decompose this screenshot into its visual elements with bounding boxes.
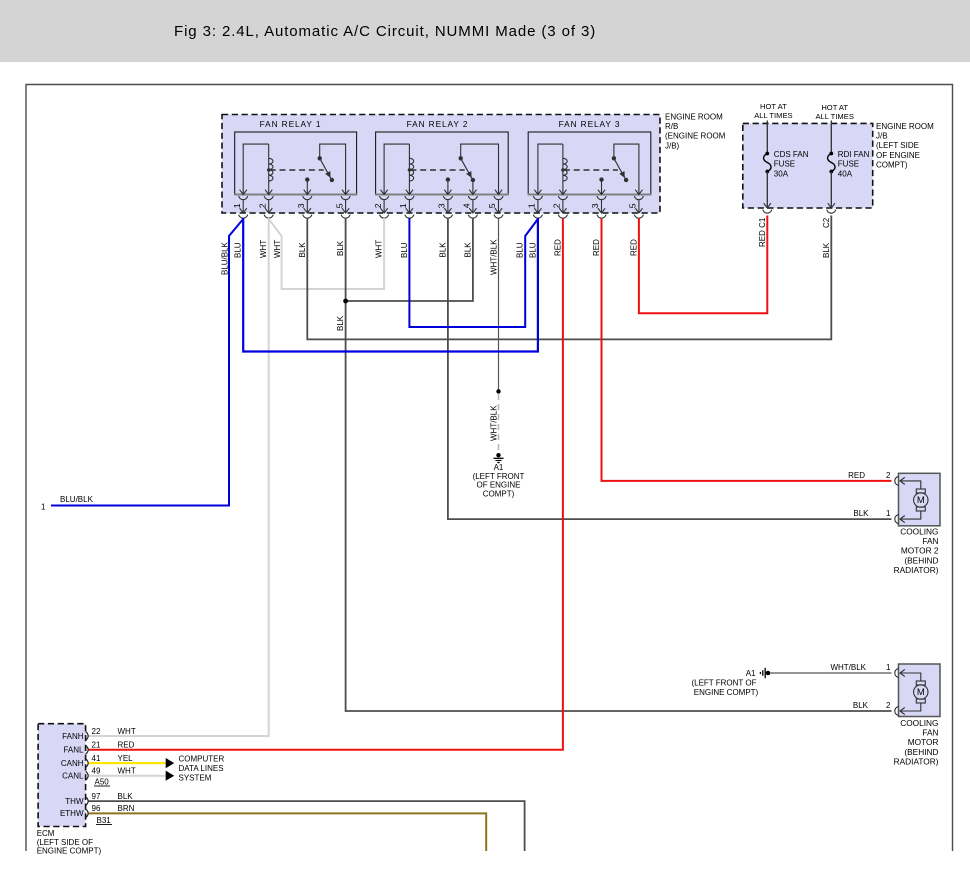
svg-text:BLK: BLK — [463, 242, 472, 258]
CDS FAN FUSE 30A — [763, 121, 809, 214]
FAN RELAY 2 body — [375, 119, 509, 195]
FAN RELAY 2 coil — [384, 144, 414, 194]
svg-text:OF ENGINE: OF ENGINE — [476, 481, 520, 490]
wire BLK relay1 pin5 to cooling fan motor pin2 — [346, 218, 892, 711]
svg-text:FAN: FAN — [922, 728, 938, 738]
svg-text:WHT: WHT — [375, 240, 384, 258]
FAN RELAY 2 arm contact pin 4 lead — [472, 180, 474, 195]
splice dot — [496, 389, 500, 393]
FAN RELAY 1 body — [234, 119, 357, 195]
svg-text:COMPT): COMPT) — [483, 490, 515, 499]
svg-text:WHT: WHT — [118, 767, 136, 776]
ground point A1 (left front of engine compt) for motor — [760, 668, 770, 678]
svg-text:MOTOR 2: MOTOR 2 — [901, 546, 939, 556]
svg-text:RED C1: RED C1 — [758, 217, 767, 247]
svg-text:WHT/BLK: WHT/BLK — [490, 405, 499, 441]
svg-text:CANH: CANH — [61, 759, 84, 768]
svg-text:FAN: FAN — [922, 536, 938, 546]
svg-text:A50: A50 — [95, 778, 110, 787]
ground lead (dashed) WHT/BLK — [498, 394, 500, 451]
svg-text:ENGINE COMPT): ENGINE COMPT) — [37, 847, 102, 856]
svg-text:(LEFT SIDE: (LEFT SIDE — [876, 141, 919, 150]
svg-text:COMPT): COMPT) — [876, 160, 908, 169]
FAN RELAY 3 body — [528, 119, 652, 195]
svg-text:HOT AT: HOT AT — [760, 102, 787, 111]
svg-text:96: 96 — [92, 804, 101, 813]
FAN RELAY 1 fixed contact pin — [305, 177, 309, 194]
FAN RELAY 2 pin terminals — [373, 190, 503, 219]
svg-text:49: 49 — [92, 767, 101, 776]
junction dot relay1-pin5/relay2-pin4 — [343, 299, 348, 304]
svg-text:40A: 40A — [838, 169, 853, 178]
svg-text:BLK: BLK — [336, 240, 345, 256]
svg-text:1: 1 — [527, 203, 537, 208]
svg-text:FAN RELAY 2: FAN RELAY 2 — [407, 119, 469, 129]
svg-text:J/B: J/B — [876, 132, 888, 141]
svg-text:R/B: R/B — [665, 122, 678, 131]
FAN RELAY 3 coil — [538, 144, 567, 194]
FAN RELAY 2 coil-to-switch dashed link — [410, 169, 464, 171]
svg-text:B31: B31 — [97, 816, 112, 825]
svg-text:ENGINE ROOM: ENGINE ROOM — [665, 113, 723, 122]
svg-text:1: 1 — [886, 509, 891, 518]
ENGINE ROOM R/B label — [665, 113, 726, 151]
ECM connector B31 — [96, 816, 112, 825]
FAN RELAY 3 coil-to-switch dashed link — [564, 169, 618, 171]
svg-text:1: 1 — [41, 503, 46, 512]
svg-text:5: 5 — [487, 203, 497, 208]
ECM caption — [37, 829, 102, 856]
svg-text:(BEHIND: (BEHIND — [904, 555, 938, 565]
wire BLU/BLK relay1 pin1 to connector 1 — [51, 219, 243, 506]
cooling fan motor — [894, 664, 940, 766]
svg-text:ENGINE ROOM: ENGINE ROOM — [876, 122, 934, 131]
svg-text:2: 2 — [886, 471, 891, 480]
wire BLK relay2 pin4 to junction — [346, 218, 473, 301]
svg-text:A1: A1 — [746, 669, 756, 678]
svg-text:CDS FAN: CDS FAN — [774, 150, 809, 159]
svg-text:BLK: BLK — [438, 242, 447, 258]
svg-text:3: 3 — [590, 203, 600, 208]
svg-text:YEL: YEL — [118, 754, 134, 763]
svg-text:(LEFT FRONT OF: (LEFT FRONT OF — [691, 678, 756, 687]
svg-text:BLK: BLK — [853, 509, 869, 518]
svg-text:BRN: BRN — [118, 804, 135, 813]
svg-text:J/B): J/B) — [665, 141, 680, 150]
svg-text:ENGINE COMPT): ENGINE COMPT) — [694, 688, 759, 697]
svg-text:1: 1 — [232, 203, 242, 208]
svg-text:COMPUTER: COMPUTER — [179, 755, 225, 764]
wire BLK ECM pin97 (THW) — [88, 801, 525, 851]
svg-text:WHT: WHT — [273, 240, 282, 258]
wire WHT ECM pin49 (CANL) to data-link arrow — [88, 775, 168, 777]
ECM pin 49 CANL — [62, 767, 136, 781]
svg-text:BLU: BLU — [400, 242, 409, 258]
svg-text:BLK: BLK — [853, 701, 869, 710]
svg-text:BLK: BLK — [336, 315, 345, 331]
ECM box — [38, 724, 86, 827]
svg-text:(ENGINE ROOM: (ENGINE ROOM — [665, 132, 726, 141]
FAN RELAY 3 switch — [612, 144, 639, 194]
svg-text:Fig 3: 2.4L, Automatic A/C Cir: Fig 3: 2.4L, Automatic A/C Circuit, NUMM… — [174, 23, 596, 40]
svg-text:2: 2 — [373, 203, 383, 208]
svg-text:ETHW: ETHW — [60, 809, 84, 818]
svg-text:WHT/BLK: WHT/BLK — [490, 239, 499, 275]
svg-text:ECM: ECM — [37, 829, 55, 838]
svg-text:41: 41 — [92, 754, 101, 763]
FAN RELAY 1 coil — [243, 144, 273, 194]
svg-text:HOT AT: HOT AT — [821, 103, 848, 112]
svg-text:2: 2 — [886, 701, 891, 710]
svg-text:A1: A1 — [494, 463, 504, 472]
FAN RELAY 1 pin terminals — [232, 190, 350, 219]
cooling fan motor 2 — [894, 473, 940, 575]
FAN RELAY 1 switch — [318, 144, 346, 194]
svg-text:RED: RED — [629, 239, 638, 256]
svg-text:5: 5 — [628, 203, 638, 208]
svg-text:M: M — [917, 687, 925, 698]
wire YEL ECM pin41 (CANH) — [88, 762, 168, 764]
svg-text:COOLING: COOLING — [900, 718, 938, 728]
svg-text:21: 21 — [92, 741, 101, 750]
svg-text:BLK: BLK — [822, 242, 831, 258]
wire BLU relay2 pin1 to relay3 pin1 branch — [409, 218, 538, 327]
svg-text:BLU/BLK: BLU/BLK — [60, 495, 94, 504]
ECM pin 96 ETHW — [60, 804, 135, 818]
svg-text:RED: RED — [553, 239, 562, 256]
wire WHT relay1 pin2 to ECM pin22 (FANH) — [88, 218, 269, 736]
ECM pin 22 FANH — [62, 727, 136, 741]
svg-text:CANL: CANL — [62, 772, 84, 781]
svg-text:BLU: BLU — [516, 242, 525, 258]
svg-text:22: 22 — [92, 727, 101, 736]
svg-text:OF ENGINE: OF ENGINE — [876, 151, 920, 160]
svg-text:97: 97 — [92, 792, 101, 801]
svg-text:FANH: FANH — [62, 732, 84, 741]
svg-text:3: 3 — [437, 203, 447, 208]
svg-text:4: 4 — [462, 203, 472, 208]
computer data lines arrows — [166, 758, 175, 781]
wire RED relay3 pin3 to cooling fan motor 2 pin2 — [602, 218, 892, 481]
HOT AT ALL TIMES label (right) — [815, 103, 853, 121]
wire RED relay3 pin2 to ECM pin21 (FANL) — [88, 218, 563, 750]
ECM pin 97 THW — [65, 792, 133, 806]
svg-text:SYSTEM: SYSTEM — [179, 774, 212, 783]
svg-text:(LEFT FRONT: (LEFT FRONT — [473, 472, 525, 481]
RDI FAN FUSE 40A — [827, 121, 870, 214]
wire BLU relay1 pin1 to relay3 pin1 — [243, 218, 538, 352]
FAN RELAY 2 fixed contact pin — [446, 177, 450, 194]
svg-text:M: M — [917, 495, 925, 506]
svg-text:RDI FAN: RDI FAN — [838, 150, 870, 159]
wire WHT/BLK ground to cooling fan motor pin1 — [771, 672, 892, 674]
svg-text:BLK: BLK — [118, 792, 134, 801]
ground A1 caption — [473, 463, 525, 499]
FAN RELAY 3 fixed contact pin — [599, 177, 603, 194]
wire BRN ECM pin96 (ETHW) — [88, 813, 486, 851]
FAN RELAY 1 coil-to-switch dashed link — [270, 169, 324, 171]
caption left front of engine compt — [691, 678, 758, 697]
ENGINE ROOM R/B junction block box — [222, 115, 660, 214]
svg-text:C2: C2 — [822, 217, 831, 228]
svg-text:(BEHIND: (BEHIND — [904, 747, 938, 757]
svg-text:MOTOR: MOTOR — [908, 737, 939, 747]
ECM pin 41 CANH — [61, 754, 133, 768]
svg-text:30A: 30A — [774, 169, 789, 178]
svg-text:RED: RED — [592, 239, 601, 256]
svg-text:BLK: BLK — [298, 242, 307, 258]
ENGINE ROOM J/B fuse box — [743, 123, 873, 208]
wire WHT/BLK relay2 pin5 to ground splice — [498, 218, 500, 391]
svg-text:ALL TIMES: ALL TIMES — [754, 111, 792, 120]
wire BLK relay2 pin3 to cooling fan motor 2 pin1 — [448, 218, 892, 519]
svg-text:FAN RELAY 1: FAN RELAY 1 — [260, 119, 322, 129]
header bar — [0, 0, 970, 62]
ECM pin 21 FANL — [63, 741, 134, 755]
ground point A1 — [494, 453, 504, 463]
svg-text:COOLING: COOLING — [900, 527, 938, 537]
svg-text:RED: RED — [118, 741, 135, 750]
svg-text:ALL TIMES: ALL TIMES — [815, 112, 853, 121]
svg-text:3: 3 — [296, 203, 306, 208]
svg-text:RADIATOR): RADIATOR) — [894, 565, 939, 575]
svg-text:WHT: WHT — [259, 240, 268, 258]
svg-text:(LEFT SIDE OF: (LEFT SIDE OF — [37, 838, 93, 847]
svg-text:BLU: BLU — [528, 242, 537, 258]
svg-text:1: 1 — [886, 663, 891, 672]
svg-text:FUSE: FUSE — [774, 160, 795, 169]
FAN RELAY 3 pin terminals — [527, 190, 644, 219]
svg-text:FUSE: FUSE — [838, 160, 859, 169]
svg-text:RADIATOR): RADIATOR) — [894, 756, 939, 766]
svg-text:THW: THW — [65, 797, 84, 806]
ENGINE ROOM J/B label — [876, 122, 934, 169]
svg-text:BLU: BLU — [234, 242, 243, 258]
svg-text:WHT/BLK: WHT/BLK — [830, 663, 866, 672]
svg-text:FAN RELAY 3: FAN RELAY 3 — [559, 119, 621, 129]
FAN RELAY 2 switch — [459, 144, 499, 194]
svg-text:WHT: WHT — [118, 727, 136, 736]
computer data lines caption — [179, 755, 225, 783]
wire WHT relay1 pin2 branch to relay2 pin2 — [269, 218, 384, 289]
HOT AT ALL TIMES label (left) — [754, 102, 792, 120]
svg-text:1: 1 — [398, 203, 408, 208]
svg-text:5: 5 — [334, 203, 344, 208]
svg-text:RED: RED — [848, 471, 865, 480]
svg-text:FANL: FANL — [63, 746, 84, 755]
wire RED relay3 pin5 to CDS fuse C1 — [639, 216, 767, 314]
svg-text:BLU/BLK: BLU/BLK — [221, 241, 230, 275]
wire BLK relay1 pin3 to RDI fuse C2 — [307, 216, 831, 340]
svg-text:2: 2 — [257, 203, 267, 208]
ECM connector A50 — [94, 778, 110, 787]
svg-text:2: 2 — [552, 203, 562, 208]
svg-text:DATA LINES: DATA LINES — [179, 764, 224, 773]
